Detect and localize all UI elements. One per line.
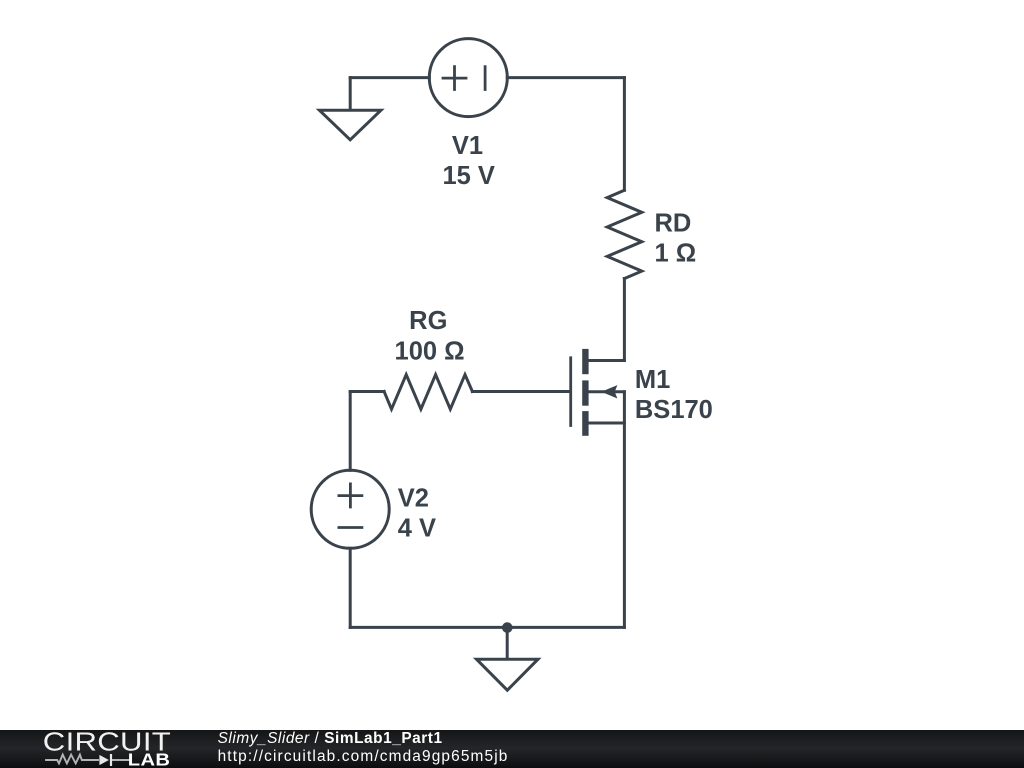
footer bar [0,730,1024,768]
wire: RG to M1 gate [472,390,569,393]
body lead [588,390,624,393]
svg-text:BS170: BS170 [635,396,713,424]
svg-text:V2: V2 [398,484,429,512]
voltage source V2 [311,470,389,548]
drain lead [588,359,624,362]
svg-text:LAB: LAB [128,750,170,768]
svg-text:V1: V1 [452,132,483,160]
logo word LAB [128,750,170,768]
gate bar [569,356,572,427]
svg-text:100 Ω: 100 Ω [395,337,465,365]
svg-text:RG: RG [409,307,447,335]
wire: M1 source down right rail to bottom [623,392,626,628]
footer author / title line [218,730,509,766]
logo diode bar [110,754,112,766]
wire: top-left corner to V1 left terminal [350,76,429,79]
wire: left corner to RG [350,390,384,393]
logo resistor squiggle [45,755,99,764]
channel dash 2 (body) [582,380,588,405]
wire: junction to ground GND2 [506,628,509,659]
wire: RD bottom to M1 drain corner [623,279,626,361]
resistor RG [384,375,472,410]
junction node dot [502,622,513,633]
channel dash 1 (drain) [582,349,588,374]
voltage source V1 [429,39,507,117]
channel dash 3 (source) [582,411,588,436]
resistor RD [607,190,642,278]
wire: left corner down to V2 top [349,392,352,471]
logo word CIRCUIT [43,728,171,757]
logo wire to LAB [112,759,130,761]
svg-text:15 V: 15 V [442,162,494,190]
ground GND1 [319,110,381,140]
mosfet M1 [571,349,625,436]
source lead [588,422,624,425]
svg-text:M1: M1 [635,366,670,394]
wire: top-left corner down to ground GND1 [349,78,352,108]
wire: right rail down to resistor RD [623,78,626,191]
svg-text:4 V: 4 V [398,514,436,542]
CircuitLab logo [0,730,210,768]
ground GND2 [477,659,539,690]
body arrow [601,385,617,398]
wire: V1 right terminal to top-right corner [507,76,624,79]
svg-text:1 Ω: 1 Ω [655,240,697,268]
wire: bottom rail [350,626,624,629]
wire: V2 bottom down to bottom rail [349,548,352,627]
logo diode [99,755,109,765]
svg-text:RD: RD [655,209,692,237]
